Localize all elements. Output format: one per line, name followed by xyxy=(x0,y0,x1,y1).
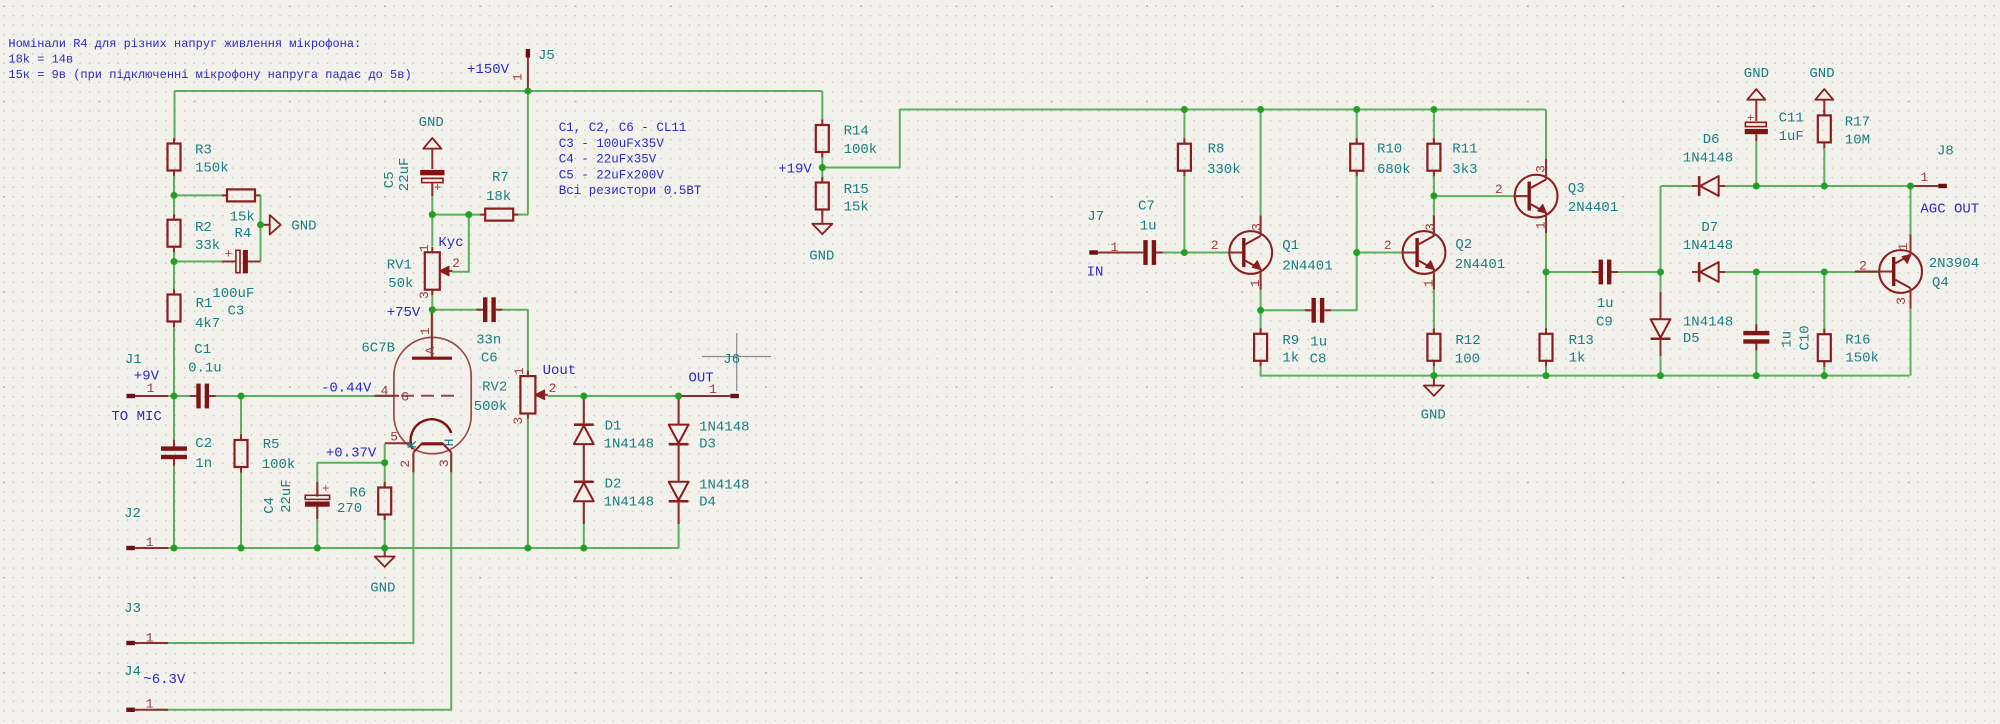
svg-text:GND: GND xyxy=(809,248,834,264)
svg-text:1N4148: 1N4148 xyxy=(699,477,749,493)
wire RV2 to ground rail xyxy=(527,414,529,548)
junction (432.3,309.7) xyxy=(429,306,436,313)
wire Q3 base wire xyxy=(1434,195,1517,197)
svg-text:2: 2 xyxy=(1859,258,1867,273)
ground above C11 xyxy=(1744,66,1769,121)
junction (1546,272) xyxy=(1543,269,1550,276)
svg-text:2N4401: 2N4401 xyxy=(1282,259,1332,275)
svg-text:J3: J3 xyxy=(124,601,141,617)
svg-text:IN: IN xyxy=(1087,265,1104,281)
svg-text:C3: C3 xyxy=(228,304,245,320)
junction (1756.3,186) xyxy=(1753,183,1760,190)
svg-text:1N4148: 1N4148 xyxy=(1683,150,1733,166)
junction (241,396) xyxy=(238,393,245,400)
junction (317.3,548) xyxy=(314,545,321,552)
wire Q3 emitter xyxy=(1545,213,1547,272)
svg-text:15k: 15k xyxy=(844,200,869,216)
wire R6 to ground rail xyxy=(384,515,386,549)
svg-text:Q3: Q3 xyxy=(1568,181,1585,197)
svg-text:C9: C9 xyxy=(1596,314,1613,330)
capacitor C11 1uF xyxy=(1745,110,1804,145)
svg-text:GND: GND xyxy=(1809,66,1834,82)
wire Q3 emitter to C9 xyxy=(1546,271,1597,273)
svg-text:R7: R7 xyxy=(492,170,509,186)
resistor R16 xyxy=(1818,329,1879,367)
note capacitors line2 xyxy=(559,137,665,151)
wire J4 to tube heater xyxy=(155,453,451,710)
junction (1433.9,375.6) xyxy=(1430,372,1437,379)
wire R3R2 node to R4 xyxy=(174,194,227,196)
svg-text:C5: C5 xyxy=(382,171,398,188)
svg-text:1N4148: 1N4148 xyxy=(1683,315,1733,331)
svg-text:+150V: +150V xyxy=(467,62,510,78)
svg-text:2: 2 xyxy=(1211,238,1219,253)
svg-text:C10: C10 xyxy=(1798,325,1814,350)
capacitor C10 xyxy=(1743,324,1813,350)
svg-text:2: 2 xyxy=(398,460,413,468)
svg-text:J7: J7 xyxy=(1087,209,1104,225)
svg-text:+19V: +19V xyxy=(778,162,812,178)
svg-text:270: 270 xyxy=(337,501,362,517)
wire cathode node xyxy=(384,444,386,488)
svg-text:1u: 1u xyxy=(1780,331,1796,348)
svg-text:J6: J6 xyxy=(723,352,740,368)
diode D7 xyxy=(1683,220,1733,282)
resistor R14 xyxy=(816,120,877,158)
label +19V xyxy=(778,162,812,178)
junction (527.9,91) xyxy=(524,88,531,95)
junction (174,548) xyxy=(171,545,178,552)
svg-text:15k: 15k xyxy=(230,209,255,225)
resistor R15 xyxy=(816,177,869,216)
ground at R4 xyxy=(261,215,317,234)
resistor R3 xyxy=(168,138,229,177)
label Kyc xyxy=(438,235,463,251)
junction (1660.5,375.6) xyxy=(1657,372,1664,379)
svg-text:6C7B: 6C7B xyxy=(361,341,395,357)
svg-text:22uF: 22uF xyxy=(397,158,413,192)
connector J2 xyxy=(124,506,168,550)
resistor R6 xyxy=(337,482,391,520)
wire Q1 emitter down xyxy=(1260,270,1262,311)
svg-text:1k: 1k xyxy=(1569,351,1586,367)
junction (174,396) xyxy=(171,393,178,400)
capacitor C6 33n xyxy=(476,297,502,366)
wire R13 xyxy=(1545,272,1547,334)
resistor R10 xyxy=(1350,138,1410,178)
svg-text:1: 1 xyxy=(146,696,154,711)
junction (1824.3,186) xyxy=(1821,183,1828,190)
svg-text:1: 1 xyxy=(1248,279,1263,287)
svg-text:R11: R11 xyxy=(1452,141,1477,157)
diode D4 xyxy=(669,444,750,524)
junction (1433.9,195.9) xyxy=(1430,192,1437,199)
svg-text:1N4148: 1N4148 xyxy=(699,419,749,435)
wire R3-R2 xyxy=(173,171,175,221)
capacitor C1 xyxy=(188,342,222,409)
label IN xyxy=(1087,265,1104,281)
svg-text:2N4401: 2N4401 xyxy=(1455,257,1505,273)
label ~6.3V xyxy=(143,672,186,688)
svg-text:Всі резистори 0.5ВТ: Всі резистори 0.5ВТ xyxy=(559,184,702,198)
transistor Q2 2N4401 xyxy=(1384,216,1505,290)
svg-text:H: H xyxy=(442,439,457,447)
svg-text:Q2: Q2 xyxy=(1455,237,1472,253)
svg-text:1: 1 xyxy=(709,382,717,397)
svg-text:15к = 9в (при підключенні мікр: 15к = 9в (при підключенні мікрофону напр… xyxy=(8,68,411,82)
svg-text:D3: D3 xyxy=(699,437,716,453)
resistor R4 15k xyxy=(222,189,260,242)
svg-text:1uF: 1uF xyxy=(1779,129,1804,145)
svg-text:C4: C4 xyxy=(262,497,278,514)
svg-text:3: 3 xyxy=(1250,223,1265,231)
ground below R12 xyxy=(1421,376,1446,424)
ground at rail xyxy=(370,548,395,596)
svg-text:10M: 10M xyxy=(1845,133,1870,149)
junction (384.7,548) xyxy=(381,545,388,552)
svg-text:R8: R8 xyxy=(1208,141,1225,157)
diode D5 xyxy=(1651,292,1734,356)
wire D1 D2 column xyxy=(583,396,585,548)
resistor R8 xyxy=(1178,138,1241,178)
svg-text:1N4148: 1N4148 xyxy=(604,437,654,453)
diode D6 xyxy=(1683,132,1733,196)
label AGC OUT xyxy=(1920,201,1979,217)
svg-text:100k: 100k xyxy=(844,142,878,158)
wire R16 top xyxy=(1823,272,1825,334)
svg-text:100uF: 100uF xyxy=(212,286,254,302)
resistor R17 xyxy=(1818,110,1870,149)
svg-text:R16: R16 xyxy=(1845,333,1870,349)
capacitor C7 xyxy=(1137,198,1163,265)
wire C11 down xyxy=(1755,141,1757,186)
svg-text:C1: C1 xyxy=(194,342,211,358)
transistor Q4 2N3904 xyxy=(1855,235,1979,309)
svg-text:C11: C11 xyxy=(1779,110,1804,126)
svg-text:C1, C2, C6 - CL11: C1, C2, C6 - CL11 xyxy=(559,121,687,135)
svg-text:C6: C6 xyxy=(481,351,498,367)
diode D3 xyxy=(669,399,750,453)
wire D node riser xyxy=(1660,186,1662,272)
wire R14 riser xyxy=(821,91,823,123)
potentiometer RV2 xyxy=(474,367,557,425)
svg-text:D4: D4 xyxy=(699,495,716,511)
junction (468.8,214.6) xyxy=(465,211,472,218)
svg-text:1: 1 xyxy=(1920,170,1928,185)
svg-text:1: 1 xyxy=(1896,243,1911,251)
wire R12 bottom xyxy=(1433,362,1435,376)
svg-text:D7: D7 xyxy=(1701,220,1718,236)
svg-text:R1: R1 xyxy=(196,296,213,312)
connector J6 pin xyxy=(679,382,739,398)
svg-text:C5 - 22uFx200V: C5 - 22uFx200V xyxy=(559,168,665,182)
note R4 values line3 xyxy=(8,68,411,82)
svg-text:22uF: 22uF xyxy=(279,479,295,513)
svg-text:-0.44V: -0.44V xyxy=(321,381,372,397)
svg-text:1: 1 xyxy=(146,535,154,550)
resistor R1 xyxy=(168,289,221,332)
wire R10 to Q2 base node xyxy=(1356,171,1358,253)
connector J1 xyxy=(125,352,168,398)
resistor R11 xyxy=(1427,138,1477,178)
resistor R12 xyxy=(1427,328,1480,367)
wire C7 to Q1 base xyxy=(1158,252,1229,254)
wire R13 bottom xyxy=(1545,362,1547,376)
wire C3 left xyxy=(174,261,236,263)
potentiometer RV1 xyxy=(387,244,460,299)
junction (583.8,548) xyxy=(580,545,587,552)
svg-text:18k = 14в: 18k = 14в xyxy=(8,52,73,66)
label +0.37V xyxy=(326,446,377,462)
svg-text:0.1u: 0.1u xyxy=(188,360,222,376)
note capacitors line3 xyxy=(559,153,657,167)
svg-text:R13: R13 xyxy=(1569,333,1594,349)
svg-text:Q1: Q1 xyxy=(1282,238,1299,254)
svg-text:2: 2 xyxy=(1495,182,1503,197)
svg-text:C2: C2 xyxy=(195,436,212,452)
capacitor C2 xyxy=(161,436,212,472)
wire right ground rail xyxy=(1261,362,1910,376)
wire R5 to ground rail xyxy=(240,467,242,548)
svg-text:1: 1 xyxy=(1111,240,1119,255)
svg-text:+: + xyxy=(225,247,233,262)
svg-text:R10: R10 xyxy=(1377,141,1402,157)
svg-text:C3 - 100uFx35V: C3 - 100uFx35V xyxy=(559,137,665,151)
svg-text:R3: R3 xyxy=(195,142,212,158)
wire R8 to base node xyxy=(1183,171,1185,253)
wire RV2 wiper to OUT xyxy=(548,395,679,397)
svg-text:~6.3V: ~6.3V xyxy=(143,672,186,688)
svg-text:2N3904: 2N3904 xyxy=(1929,256,1979,272)
junction (1910.5,186) xyxy=(1907,183,1914,190)
svg-text:G: G xyxy=(401,389,409,404)
wire C3 right xyxy=(248,261,261,263)
svg-text:1: 1 xyxy=(1421,279,1436,287)
svg-text:2: 2 xyxy=(1384,238,1392,253)
svg-text:1: 1 xyxy=(1534,221,1549,229)
svg-text:C4 - 22uFx35V: C4 - 22uFx35V xyxy=(559,153,657,167)
wire Q2 base xyxy=(1357,252,1403,254)
ground above C5 xyxy=(419,115,444,169)
wire Q2 collector xyxy=(1433,196,1435,237)
wire R3 top riser xyxy=(174,91,176,141)
wire C10 bottom xyxy=(1755,342,1757,376)
svg-text:1n: 1n xyxy=(195,456,212,472)
resistor R5 xyxy=(235,435,296,473)
wire C4 to ground rail xyxy=(316,506,318,548)
svg-text:D6: D6 xyxy=(1703,132,1720,148)
wire +19V over to rail xyxy=(822,110,1546,168)
svg-text:+75V: +75V xyxy=(387,305,421,321)
resistor R2 xyxy=(168,214,221,254)
svg-text:1u: 1u xyxy=(1140,218,1157,234)
svg-text:1u: 1u xyxy=(1597,296,1614,312)
wire Q3 collector riser xyxy=(1545,110,1547,180)
junction (1356.7,109.5) xyxy=(1353,106,1360,113)
svg-text:+9V: +9V xyxy=(134,369,160,385)
junction (174,195.4) xyxy=(171,192,178,199)
junction (260.5,224.8) xyxy=(257,221,264,228)
junction (174,261.5) xyxy=(171,258,178,265)
note capacitors line1 xyxy=(559,121,687,135)
svg-text:1: 1 xyxy=(417,244,432,252)
diode D2 xyxy=(574,444,654,524)
svg-text:+: + xyxy=(322,482,329,496)
wire D3 D4 column xyxy=(678,396,680,548)
svg-text:J5: J5 xyxy=(538,48,555,64)
svg-text:J2: J2 xyxy=(124,506,141,522)
wire Q1 emitter to C8 xyxy=(1261,309,1310,311)
connector J3 xyxy=(124,601,168,646)
wire R8 top xyxy=(1183,110,1185,144)
wire C1 to tube grid xyxy=(207,395,394,397)
svg-text:1: 1 xyxy=(511,73,526,81)
transistor Q3 2N4401 xyxy=(1495,159,1618,233)
connector J6 crosshair xyxy=(702,333,771,391)
junction (1546,375.6) xyxy=(1543,372,1550,379)
label +9V xyxy=(134,369,160,385)
wire Kyc node to R7 xyxy=(432,214,485,216)
junction (1260.6,109.5) xyxy=(1257,106,1264,113)
label +75V xyxy=(387,305,421,321)
junction (384.7,462.7) xyxy=(381,459,388,466)
svg-text:33n: 33n xyxy=(476,333,501,349)
svg-text:Номінали R4 для різних напруг: Номінали R4 для різних напруг живлення м… xyxy=(8,37,361,51)
svg-text:TO MIC: TO MIC xyxy=(111,409,161,425)
svg-text:R9: R9 xyxy=(1282,333,1299,349)
svg-text:D1: D1 xyxy=(605,418,622,434)
wire R16 bottom xyxy=(1823,362,1825,376)
note capacitors line4 xyxy=(559,168,665,182)
svg-text:2N4401: 2N4401 xyxy=(1568,200,1618,216)
svg-text:GND: GND xyxy=(1744,66,1769,82)
resistor R13 xyxy=(1540,328,1594,366)
svg-text:R2: R2 xyxy=(195,220,212,236)
wire J3 to tube heater xyxy=(155,453,413,643)
resistor R9 xyxy=(1254,328,1299,366)
capacitor C8 xyxy=(1305,298,1331,367)
connector J8 xyxy=(1911,143,1954,188)
svg-text:R17: R17 xyxy=(1845,115,1870,131)
junction (583.8,396) xyxy=(580,393,587,400)
svg-text:GND: GND xyxy=(291,218,316,234)
tube U1 6C7B xyxy=(361,311,471,473)
svg-text:J1: J1 xyxy=(125,352,142,368)
wire Q4 emitter to AGC node xyxy=(1910,186,1912,250)
svg-text:RV1: RV1 xyxy=(387,258,412,274)
svg-text:GND: GND xyxy=(419,115,444,131)
svg-text:C8: C8 xyxy=(1310,351,1327,367)
wire +150V to R7 xyxy=(527,91,529,215)
ground above R17 xyxy=(1809,66,1834,115)
label Uout xyxy=(543,363,577,379)
svg-text:Uout: Uout xyxy=(543,363,577,379)
ground below R15 xyxy=(809,210,834,265)
svg-text:3: 3 xyxy=(1423,223,1438,231)
svg-text:J8: J8 xyxy=(1937,143,1954,159)
svg-text:330k: 330k xyxy=(1207,162,1241,178)
svg-text:GND: GND xyxy=(370,580,395,596)
wire C8 to R10 column xyxy=(1326,253,1357,311)
wire RV1 wiper to Kyc xyxy=(452,215,469,272)
wire R2-R1 xyxy=(173,247,175,296)
svg-text:A: A xyxy=(423,346,438,354)
svg-text:1u: 1u xyxy=(1310,335,1327,351)
wire RV1 to anode node xyxy=(431,291,433,359)
svg-text:3: 3 xyxy=(1534,165,1549,173)
svg-text:AGC OUT: AGC OUT xyxy=(1920,201,1979,217)
wire Q4 collector to ground rail xyxy=(1910,293,1912,376)
svg-text:R5: R5 xyxy=(263,437,280,453)
svg-text:+: + xyxy=(1747,111,1754,125)
wire R7 to +150V riser xyxy=(513,214,528,216)
junction (1756.3,375.6) xyxy=(1753,372,1760,379)
svg-text:RV2: RV2 xyxy=(482,380,507,396)
capacitor C4 22uF xyxy=(262,479,330,519)
label OUT xyxy=(689,370,714,386)
svg-text:5: 5 xyxy=(390,429,398,444)
wire C9 to D node xyxy=(1613,271,1661,273)
wire J1 to C1 xyxy=(155,395,198,397)
svg-text:GND: GND xyxy=(1421,408,1446,424)
wire C6 to RV2 xyxy=(498,310,528,376)
svg-text:C7: C7 xyxy=(1138,198,1155,214)
wire Q1 collector xyxy=(1260,110,1262,237)
note R4 values line1 xyxy=(8,37,361,51)
wire +150V rail xyxy=(175,90,823,92)
connector J4 xyxy=(124,664,168,712)
svg-text:3: 3 xyxy=(511,417,526,425)
svg-text:R12: R12 xyxy=(1455,333,1480,349)
svg-text:1k: 1k xyxy=(1282,351,1299,367)
svg-text:Кус: Кус xyxy=(438,235,463,251)
svg-text:33k: 33k xyxy=(195,238,220,254)
svg-text:3: 3 xyxy=(1894,297,1909,305)
junction (527.9,548) xyxy=(524,545,531,552)
wire R10 top xyxy=(1356,110,1358,144)
wire R1-J1 node xyxy=(173,322,175,397)
svg-text:100: 100 xyxy=(1455,351,1480,367)
svg-text:2: 2 xyxy=(549,381,557,396)
svg-text:2: 2 xyxy=(452,256,460,271)
svg-text:150k: 150k xyxy=(1845,351,1879,367)
svg-text:680k: 680k xyxy=(1377,162,1411,178)
label TO MIC xyxy=(111,409,161,425)
svg-text:3: 3 xyxy=(417,291,432,299)
svg-text:D2: D2 xyxy=(605,476,622,492)
svg-text:+0.37V: +0.37V xyxy=(326,446,377,462)
svg-text:100k: 100k xyxy=(262,457,296,473)
svg-text:R14: R14 xyxy=(844,124,869,140)
junction (1824.3,272) xyxy=(1821,269,1828,276)
wire Q2 emitter xyxy=(1433,271,1435,334)
svg-text:D5: D5 xyxy=(1683,331,1700,347)
wire R17 down xyxy=(1823,147,1825,186)
svg-text:1: 1 xyxy=(418,327,433,335)
svg-text:1: 1 xyxy=(512,367,527,375)
junction (822.3,167.5) xyxy=(819,164,826,171)
wire to D6 xyxy=(1661,185,1693,187)
junction (1260.6,310.3) xyxy=(1257,307,1264,314)
junction (1756.3,272) xyxy=(1753,269,1760,276)
svg-text:18k: 18k xyxy=(486,189,511,205)
svg-text:R4: R4 xyxy=(235,226,252,242)
svg-text:50k: 50k xyxy=(388,276,413,292)
label +150V xyxy=(467,62,510,78)
wire C10 top xyxy=(1755,272,1757,333)
junction (1824.3,375.6) xyxy=(1821,372,1828,379)
wire C1-R5 node down xyxy=(240,396,242,440)
